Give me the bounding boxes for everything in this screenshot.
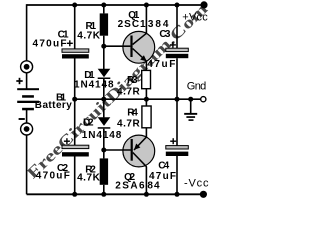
wire D2 to R2 <box>103 129 105 159</box>
junction Q1 base node <box>101 44 106 49</box>
capacitor C1 <box>62 49 89 59</box>
wire R1 to D1 <box>103 36 105 69</box>
battery plus mark <box>16 78 22 84</box>
wire R4 to Q2 emitter <box>145 128 147 137</box>
junction top rail R1 <box>101 3 106 8</box>
wire Q1 emitter to R3 <box>145 61 147 70</box>
svg-text:470uF: 470uF <box>36 171 70 182</box>
junction bottom rail C4 <box>175 192 180 197</box>
diode D1 <box>98 69 111 79</box>
wire Q2 base <box>104 149 131 151</box>
resistor R3 <box>142 70 151 88</box>
svg-text:C4: C4 <box>158 160 169 171</box>
wire C1 to mid rail <box>74 59 76 100</box>
wire Q1 base <box>104 45 131 47</box>
wire top rail to Q1 collector <box>145 5 147 33</box>
wire D1 through mid rail to D2 <box>103 79 105 118</box>
capacitor C2 <box>62 145 89 156</box>
resistor R2 <box>100 158 108 184</box>
svg-text:4.7R: 4.7R <box>117 86 140 97</box>
wire R3 to R4 through mid rail <box>145 89 147 106</box>
svg-text:R3: R3 <box>127 75 138 86</box>
svg-text:+Vcc: +Vcc <box>182 11 208 23</box>
svg-text:2SC1: 2SC1 <box>118 19 146 30</box>
svg-text:R4: R4 <box>127 108 138 119</box>
wire battery to jack J2 <box>26 110 28 123</box>
terminal +Vcc <box>200 1 207 8</box>
junction Q2 base node <box>101 148 106 153</box>
capacitor C1 plus mark <box>67 40 73 46</box>
battery minus mark <box>19 118 25 120</box>
connector jack J2 <box>21 123 33 135</box>
capacitor C4 <box>166 146 189 156</box>
wire left frame upper <box>26 4 28 61</box>
connector jack J1 <box>21 61 33 73</box>
wire mid rail to ground symbol <box>190 99 192 113</box>
svg-text:Gnd: Gnd <box>187 80 207 92</box>
wire mid rail virtual ground <box>75 98 201 100</box>
capacitor C3 plus mark <box>170 42 176 48</box>
svg-text:470uF: 470uF <box>33 38 67 49</box>
ground symbol <box>184 113 197 121</box>
wire bottom rail -Vcc <box>27 193 200 195</box>
wire jack J1 to battery <box>26 73 28 89</box>
wire D1 label crossing overlay <box>103 79 105 88</box>
wire R2 to bottom rail <box>103 185 105 195</box>
junction bottom rail R2 <box>101 192 106 197</box>
junction mid rail ground <box>188 97 193 102</box>
terminal -Vcc <box>200 191 207 198</box>
junction top rail Q1 collector <box>144 3 149 8</box>
wire mid rail to C2 <box>74 99 76 145</box>
battery B1 <box>17 88 39 110</box>
capacitor C2 plus mark <box>64 138 70 144</box>
svg-text:47uF: 47uF <box>147 59 175 70</box>
wire C2 to bottom rail <box>74 157 76 195</box>
transistor Q1 2SC1384 NPN <box>123 31 155 63</box>
wire left frame lower <box>26 135 28 194</box>
terminal Gnd <box>201 97 206 102</box>
junction mid rail C1 C2 <box>72 97 77 102</box>
svg-text:-Vcc: -Vcc <box>184 177 209 189</box>
wire D2 label crossing overlay <box>103 130 105 139</box>
svg-text:D2: D2 <box>83 117 94 128</box>
diode D2 <box>98 117 111 128</box>
wire top rail to C1 <box>74 5 76 49</box>
svg-text:1N4148: 1N4148 <box>82 130 122 141</box>
svg-text:C3: C3 <box>159 29 170 40</box>
wire C4 to bottom rail <box>176 156 178 194</box>
wire C3 through mid rail to C4 <box>176 58 178 145</box>
junction mid rail R3 R4 <box>144 97 149 102</box>
svg-text:4.7R: 4.7R <box>117 118 140 129</box>
wire top rail +Vcc <box>27 4 201 6</box>
svg-text:4.7K: 4.7K <box>77 173 100 184</box>
wire Q2 collector to bottom rail <box>145 167 147 195</box>
resistor R1 <box>100 13 108 35</box>
svg-text:1N4148: 1N4148 <box>74 79 114 90</box>
svg-text:4.7K: 4.7K <box>77 30 100 41</box>
junction top rail C3 <box>175 3 180 8</box>
capacitor C4 plus mark <box>170 138 176 144</box>
junction top rail C1 <box>72 3 77 8</box>
junction bottom rail Q2 collector <box>144 192 149 197</box>
svg-text:2SA6: 2SA6 <box>115 180 145 191</box>
junction bottom rail C2 <box>72 192 77 197</box>
wire top rail to R1 <box>103 5 105 13</box>
svg-text:384: 384 <box>148 19 169 30</box>
capacitor C3 <box>166 48 189 58</box>
junction mid rail diodes <box>101 97 106 102</box>
transistor Q2 2SA684 PNP <box>123 135 155 167</box>
svg-text:Battery: Battery <box>35 100 72 111</box>
resistor R4 <box>142 106 151 128</box>
svg-text:84: 84 <box>147 180 160 191</box>
junction mid rail C3 C4 <box>175 97 180 102</box>
wire top rail to C3 <box>176 5 178 48</box>
